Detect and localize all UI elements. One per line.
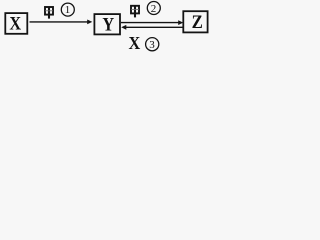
box Y — [94, 14, 120, 34]
svg-text:2: 2 — [151, 3, 157, 15]
box X — [5, 13, 27, 34]
wire arrow Z to Y — [125, 26, 183, 28]
svg-text:Y: Y — [102, 14, 114, 35]
svg-text:Z: Z — [192, 11, 203, 32]
wire arrow X to Y — [30, 21, 89, 23]
glyph jia 2 — [131, 6, 139, 18]
node circled 2 — [147, 2, 160, 15]
wire arrow Y to Z — [121, 22, 180, 24]
svg-text:X: X — [129, 33, 141, 52]
node circled 3 — [146, 38, 159, 51]
svg-text:X: X — [9, 13, 21, 34]
svg-text:3: 3 — [149, 39, 155, 51]
node circled 1 — [61, 3, 74, 16]
box Z — [183, 11, 207, 32]
glyph jia 1 — [45, 7, 53, 19]
background — [0, 0, 212, 52]
svg-text:1: 1 — [65, 4, 71, 16]
